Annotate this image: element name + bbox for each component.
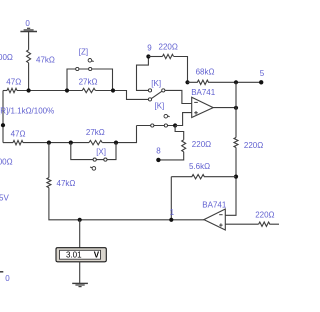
svg-text:[K]: [K] — [151, 79, 161, 88]
resistor 5.6kΩ (feedback U2) — [171, 175, 236, 179]
wire left vertical (potentiometer branch) — [2, 91, 4, 143]
voltmeter U3 (3.01 V) — [56, 248, 106, 262]
junction feedback/rail R — [234, 80, 238, 84]
node 5 terminal — [259, 80, 263, 84]
svg-text:68kΩ: 68kΩ — [196, 68, 215, 77]
junction voltmeter tap — [78, 218, 82, 222]
svg-text:27kΩ: 27kΩ — [86, 128, 105, 137]
svg-text:V: V — [94, 251, 100, 260]
junction 68k left — [185, 80, 189, 84]
wire switch Z parallel loop — [67, 69, 113, 91]
switch K1 pin right (common) — [162, 89, 165, 92]
junction rail B / X branch right — [114, 141, 118, 145]
junction rail B / X branch — [69, 141, 73, 145]
svg-text:3.01: 3.01 — [66, 251, 82, 260]
wire switch X parallel loop — [71, 143, 116, 160]
resistor 220Ω (right edge, cut) — [259, 222, 279, 226]
wire voltmeter bottom lead — [79, 262, 81, 284]
svg-text:1: 1 — [170, 208, 175, 217]
wire rail A left — [3, 90, 7, 92]
resistor 220Ω (vertical, rail R) — [234, 138, 238, 148]
svg-text:27kΩ: 27kΩ — [79, 77, 98, 86]
wire rail A middle — [17, 90, 83, 92]
wire + node down to 220Ω (branch to node 8) — [175, 126, 184, 140]
node 8 terminal — [156, 158, 160, 162]
junction rail B / 47k2 — [47, 141, 51, 145]
svg-text:220Ω: 220Ω — [244, 141, 263, 150]
resistor 47Ω (in rail A) — [7, 88, 17, 92]
resistor 220Ω (top, from node 9) — [162, 54, 173, 58]
wire node 9 down-left to switch K1 upper throw — [137, 57, 149, 91]
switch K2 pin 1 — [151, 124, 154, 127]
wire U2 + input to 220Ω — [225, 223, 258, 225]
switch Z pin 1 — [76, 67, 79, 70]
op-amp U2 BA741 (mirrored) — [204, 209, 225, 230]
svg-text:220Ω: 220Ω — [255, 211, 274, 220]
op-amp U1 BA741 — [192, 97, 214, 117]
wire 47k2 bottom to output rail — [48, 188, 50, 220]
svg-text:47kΩ: 47kΩ — [36, 56, 55, 65]
ground GND1 (top, node 0) — [20, 28, 37, 31]
svg-text:5V: 5V — [0, 194, 9, 203]
wire 47k2 branch: rail B down to output rail — [48, 143, 50, 178]
svg-text:47Ω: 47Ω — [11, 130, 26, 139]
wire rail B (lower rail) — [3, 142, 13, 144]
wire rail B middle — [23, 142, 89, 144]
resistor 27kΩ (in rail A) — [82, 88, 95, 92]
node 9 junction — [146, 54, 150, 58]
svg-text:220Ω: 220Ω — [159, 43, 178, 52]
wire rail R upper — [235, 82, 237, 137]
junction Z-block left — [65, 88, 69, 92]
wire rail R lower to op-amp U2 inverting input — [225, 148, 236, 216]
switch K1 lever — [151, 91, 162, 98]
wire rail B right + elbow up to switch K2 — [102, 126, 136, 143]
node pot wiper junction — [1, 123, 5, 127]
junction output/rail R — [234, 106, 238, 110]
svg-text:9: 9 — [147, 44, 152, 53]
switch K2 control bubble — [164, 114, 168, 118]
switch X pin 1 — [93, 158, 96, 161]
ground GND3 (bottom-left, cut at edge) — [0, 271, 3, 273]
wire U1 output to rail R — [213, 107, 236, 109]
svg-text:47kΩ: 47kΩ — [57, 179, 76, 188]
switch X control bubble — [92, 167, 96, 171]
wire rail A right + step down to switch K1 lower throw — [95, 91, 148, 100]
svg-text:BA741: BA741 — [191, 88, 216, 97]
ground GND2 (below voltmeter) — [72, 283, 88, 286]
junction Z-block right — [111, 88, 115, 92]
switch K2 pin 2 — [164, 124, 167, 127]
wire node 9 to 220Ω — [148, 56, 162, 58]
svg-text:00Ω: 00Ω — [0, 158, 13, 167]
wire 220Ω right, elbow down to 68k node — [174, 57, 188, 83]
switch X pin 2 — [104, 158, 107, 161]
junction 47k/rail A — [27, 88, 31, 92]
svg-text:BA741: BA741 — [202, 200, 227, 209]
resistor 68kΩ (feedback) — [188, 80, 262, 84]
wire + input node to op-amp U1 non-inverting input — [175, 113, 192, 126]
svg-text:[X]: [X] — [96, 148, 106, 157]
switch Z pin 2 — [89, 67, 92, 70]
svg-text:8: 8 — [156, 146, 161, 155]
svg-text:00Ω: 00Ω — [0, 53, 13, 62]
wire switch K2 row to + input node — [137, 125, 176, 127]
switch K1 pin bottom-left — [148, 98, 151, 101]
junction rail R / 5.6k — [234, 175, 238, 179]
wire 5.6k left elbow down to output rail — [170, 177, 172, 220]
junction + input node — [173, 123, 177, 127]
resistor 27kΩ (in rail B) — [89, 140, 102, 144]
svg-text:[Z]: [Z] — [79, 48, 88, 57]
resistor 47kΩ (vertical, mid-left) — [47, 178, 51, 188]
wire voltmeter top lead — [79, 220, 81, 248]
wire 220Ω bottom to node 8 — [160, 152, 183, 160]
wire ground GND1 stem down to R 47k — [28, 32, 30, 50]
resistor 220Ω (vertical, to node 8) — [182, 140, 186, 152]
wire output rail (bottom horizontal) — [49, 219, 204, 221]
svg-text:[R]/1.1kΩ/100%: [R]/1.1kΩ/100% — [0, 107, 54, 116]
resistor 47Ω (in rail B) — [13, 140, 23, 144]
wire K1 common to op-amp U1 inverting input — [165, 90, 192, 103]
switch Z control bubble — [88, 59, 92, 63]
svg-text:0: 0 — [25, 19, 30, 28]
switch K1 (SPDT) pin top-left — [148, 89, 151, 92]
svg-text:0: 0 — [5, 274, 10, 283]
svg-text:5: 5 — [260, 69, 265, 78]
svg-text:5.6kΩ: 5.6kΩ — [189, 162, 210, 171]
resistor 47kΩ (vertical, top-left) — [27, 50, 31, 63]
svg-text:47Ω: 47Ω — [6, 77, 21, 86]
svg-text:220Ω: 220Ω — [192, 140, 211, 149]
svg-text:[K]: [K] — [155, 101, 165, 110]
wire 47k bottom to rail A — [28, 63, 30, 91]
junction 5.6k tap — [169, 218, 173, 222]
